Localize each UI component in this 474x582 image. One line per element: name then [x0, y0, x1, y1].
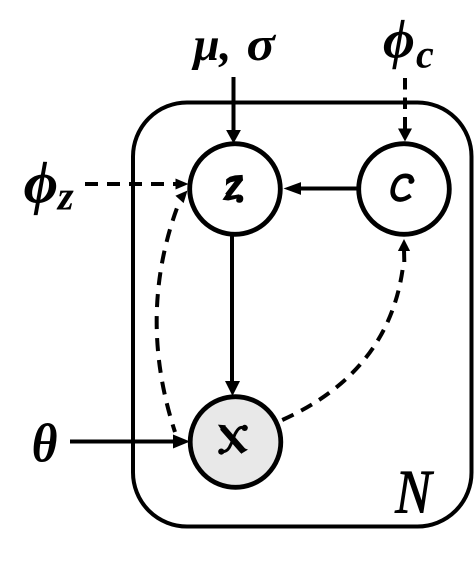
- svg-text:z: z: [56, 173, 74, 219]
- dashed curve x to c: [280, 239, 410, 421]
- svg-text:c: c: [416, 31, 434, 76]
- arrow phi_z to z (dashed): [85, 179, 189, 190]
- svg-text:σ: σ: [247, 18, 277, 71]
- dashed curve x to z: [157, 191, 188, 433]
- svg-text:θ: θ: [32, 413, 58, 474]
- node x letter x: [218, 425, 248, 455]
- node z (circle): [190, 144, 281, 235]
- svg-text:ϕ: ϕ: [24, 150, 58, 216]
- arrow z to x (solid): [225, 237, 240, 397]
- arrow phi_c to c (dashed): [398, 78, 412, 142]
- plate N: [133, 103, 472, 527]
- arrow c to z (solid): [284, 182, 357, 195]
- svg-text:N: N: [394, 459, 434, 527]
- node c letter c: [391, 176, 415, 200]
- svg-text:ϕ: ϕ: [383, 9, 415, 70]
- node c (circle): [359, 144, 450, 235]
- arrow mu,sigma to z (solid): [226, 77, 241, 144]
- node z letter z: [222, 175, 243, 203]
- arrow theta to x (solid): [70, 435, 190, 449]
- node x (observed, shaded circle): [190, 397, 281, 488]
- svg-text:μ,: μ,: [192, 19, 232, 71]
